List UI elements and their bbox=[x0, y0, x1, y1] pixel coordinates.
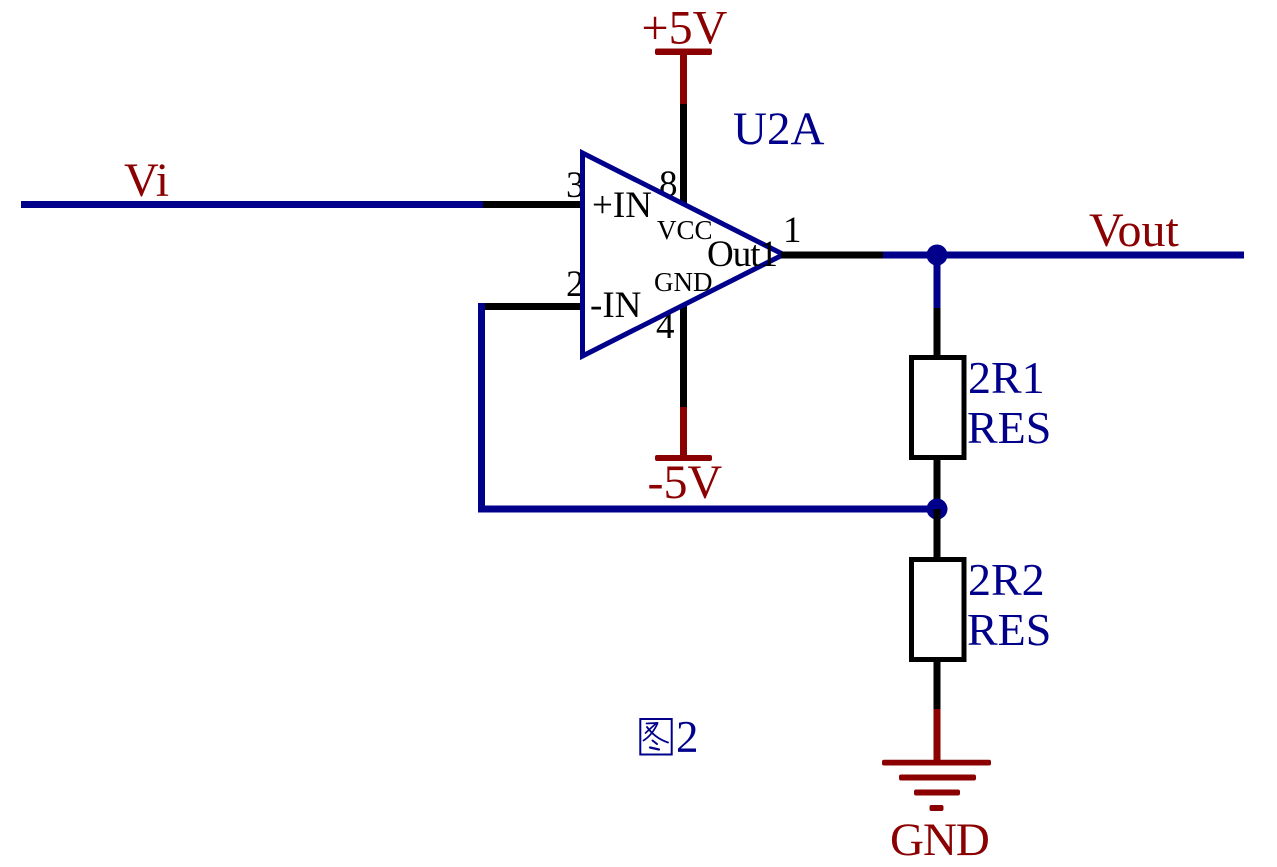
ground stem bbox=[934, 709, 941, 762]
pin 3 stub (+IN) bbox=[483, 201, 585, 208]
junction node A (dot) bbox=[927, 245, 948, 266]
ground bar 3 bbox=[914, 790, 960, 796]
svg-text:2R2: 2R2 bbox=[968, 554, 1045, 605]
+5V power bar stem bbox=[680, 51, 687, 104]
resistor 2R1 body bbox=[912, 358, 965, 458]
-5V power bar bbox=[655, 455, 712, 461]
svg-text:1: 1 bbox=[783, 210, 802, 251]
caption figure glyph tu (drawn) bbox=[640, 719, 671, 755]
resistor 2R1 bottom pin bbox=[934, 458, 941, 509]
resistor 2R2 body bbox=[912, 560, 965, 660]
svg-text:Out1: Out1 bbox=[707, 234, 777, 275]
wire Vi input (blue) bbox=[21, 201, 483, 208]
output pin 1 stub bbox=[781, 252, 883, 259]
svg-text:-IN: -IN bbox=[590, 285, 641, 326]
svg-text:VCC: VCC bbox=[657, 215, 713, 245]
svg-text:U2A: U2A bbox=[733, 103, 824, 155]
svg-text:Vout: Vout bbox=[1089, 204, 1179, 257]
+5V power bar bbox=[655, 49, 712, 56]
svg-text:Vi: Vi bbox=[124, 154, 169, 207]
ground bar 1 bbox=[882, 760, 991, 766]
svg-text:2: 2 bbox=[676, 712, 699, 762]
svg-text:GND: GND bbox=[654, 267, 713, 297]
feedback wire horizontal segment bbox=[478, 506, 937, 513]
svg-text:+5V: +5V bbox=[642, 2, 728, 55]
resistor 2R2 top pin bbox=[934, 509, 941, 559]
ground bar 2 bbox=[899, 775, 976, 781]
svg-text:2R1: 2R1 bbox=[968, 352, 1045, 403]
resistor 2R1 top pin bbox=[934, 308, 941, 358]
pin 4 stub (GND, vertical) bbox=[680, 304, 687, 407]
svg-text:-5V: -5V bbox=[648, 456, 723, 509]
svg-text:GND: GND bbox=[890, 814, 989, 866]
wire node A down (blue) bbox=[934, 255, 941, 308]
pin 2 stub (-IN) bbox=[480, 303, 585, 310]
wire Vout (blue) bbox=[883, 252, 1244, 259]
svg-text:RES: RES bbox=[967, 604, 1051, 655]
ground bar 4 bbox=[930, 805, 944, 811]
feedback wire vertical segment bbox=[478, 303, 485, 513]
svg-text:RES: RES bbox=[967, 402, 1051, 453]
svg-text:+IN: +IN bbox=[592, 185, 652, 226]
resistor 2R2 bottom pin bbox=[934, 660, 941, 709]
junction node B (dot) bbox=[927, 499, 948, 520]
-5V power bar stem bbox=[680, 407, 687, 456]
pin 8 stub (VCC, vertical) bbox=[680, 103, 687, 205]
op-amp U2A triangle bbox=[583, 153, 784, 356]
